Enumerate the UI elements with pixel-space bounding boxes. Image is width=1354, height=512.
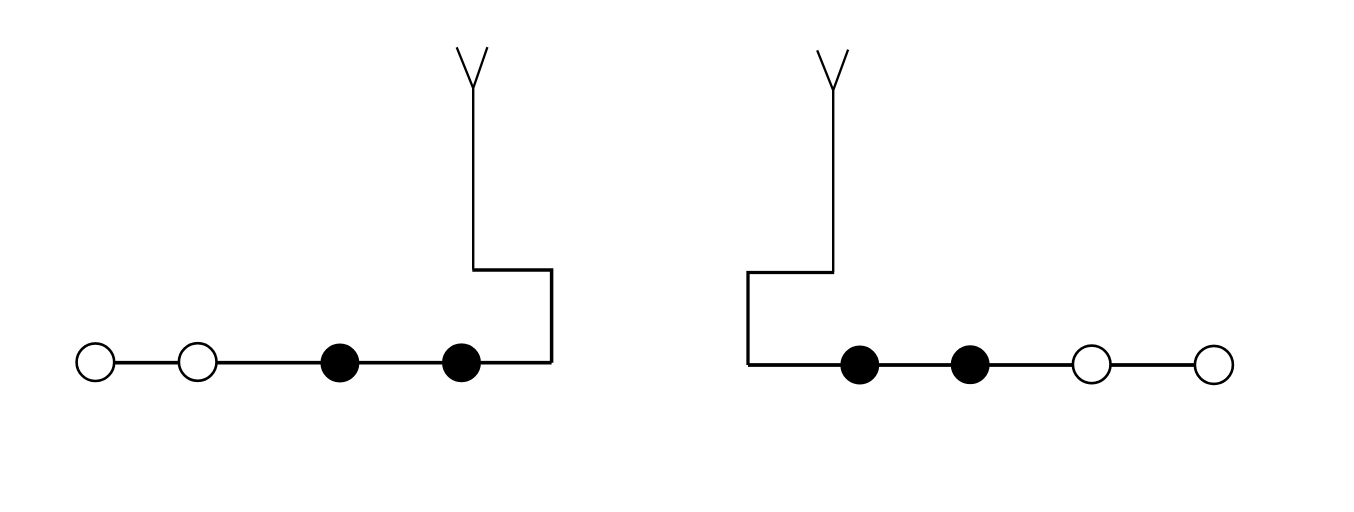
node N7 (open) xyxy=(1073,346,1111,384)
antenna A2 xyxy=(817,50,848,91)
wire (A1 elbow to chain 1) xyxy=(472,270,551,363)
node N5 (filled) xyxy=(842,347,878,383)
node N3 (filled) xyxy=(322,345,358,381)
wire (A2 feed line) xyxy=(832,90,834,271)
node N4 (filled) xyxy=(443,345,479,381)
wire (A2 elbow to chain 2) xyxy=(748,273,834,366)
node N8 (open) xyxy=(1195,346,1233,384)
wire (A1 feed line) xyxy=(472,88,474,269)
antenna A1 xyxy=(457,47,488,88)
node N2 (open) xyxy=(179,343,217,381)
wire (chain 1 bus) xyxy=(95,361,551,365)
node N1 (open) xyxy=(77,343,115,381)
node N6 (filled) xyxy=(952,347,988,383)
wire (chain 2 bus) xyxy=(748,363,1214,367)
